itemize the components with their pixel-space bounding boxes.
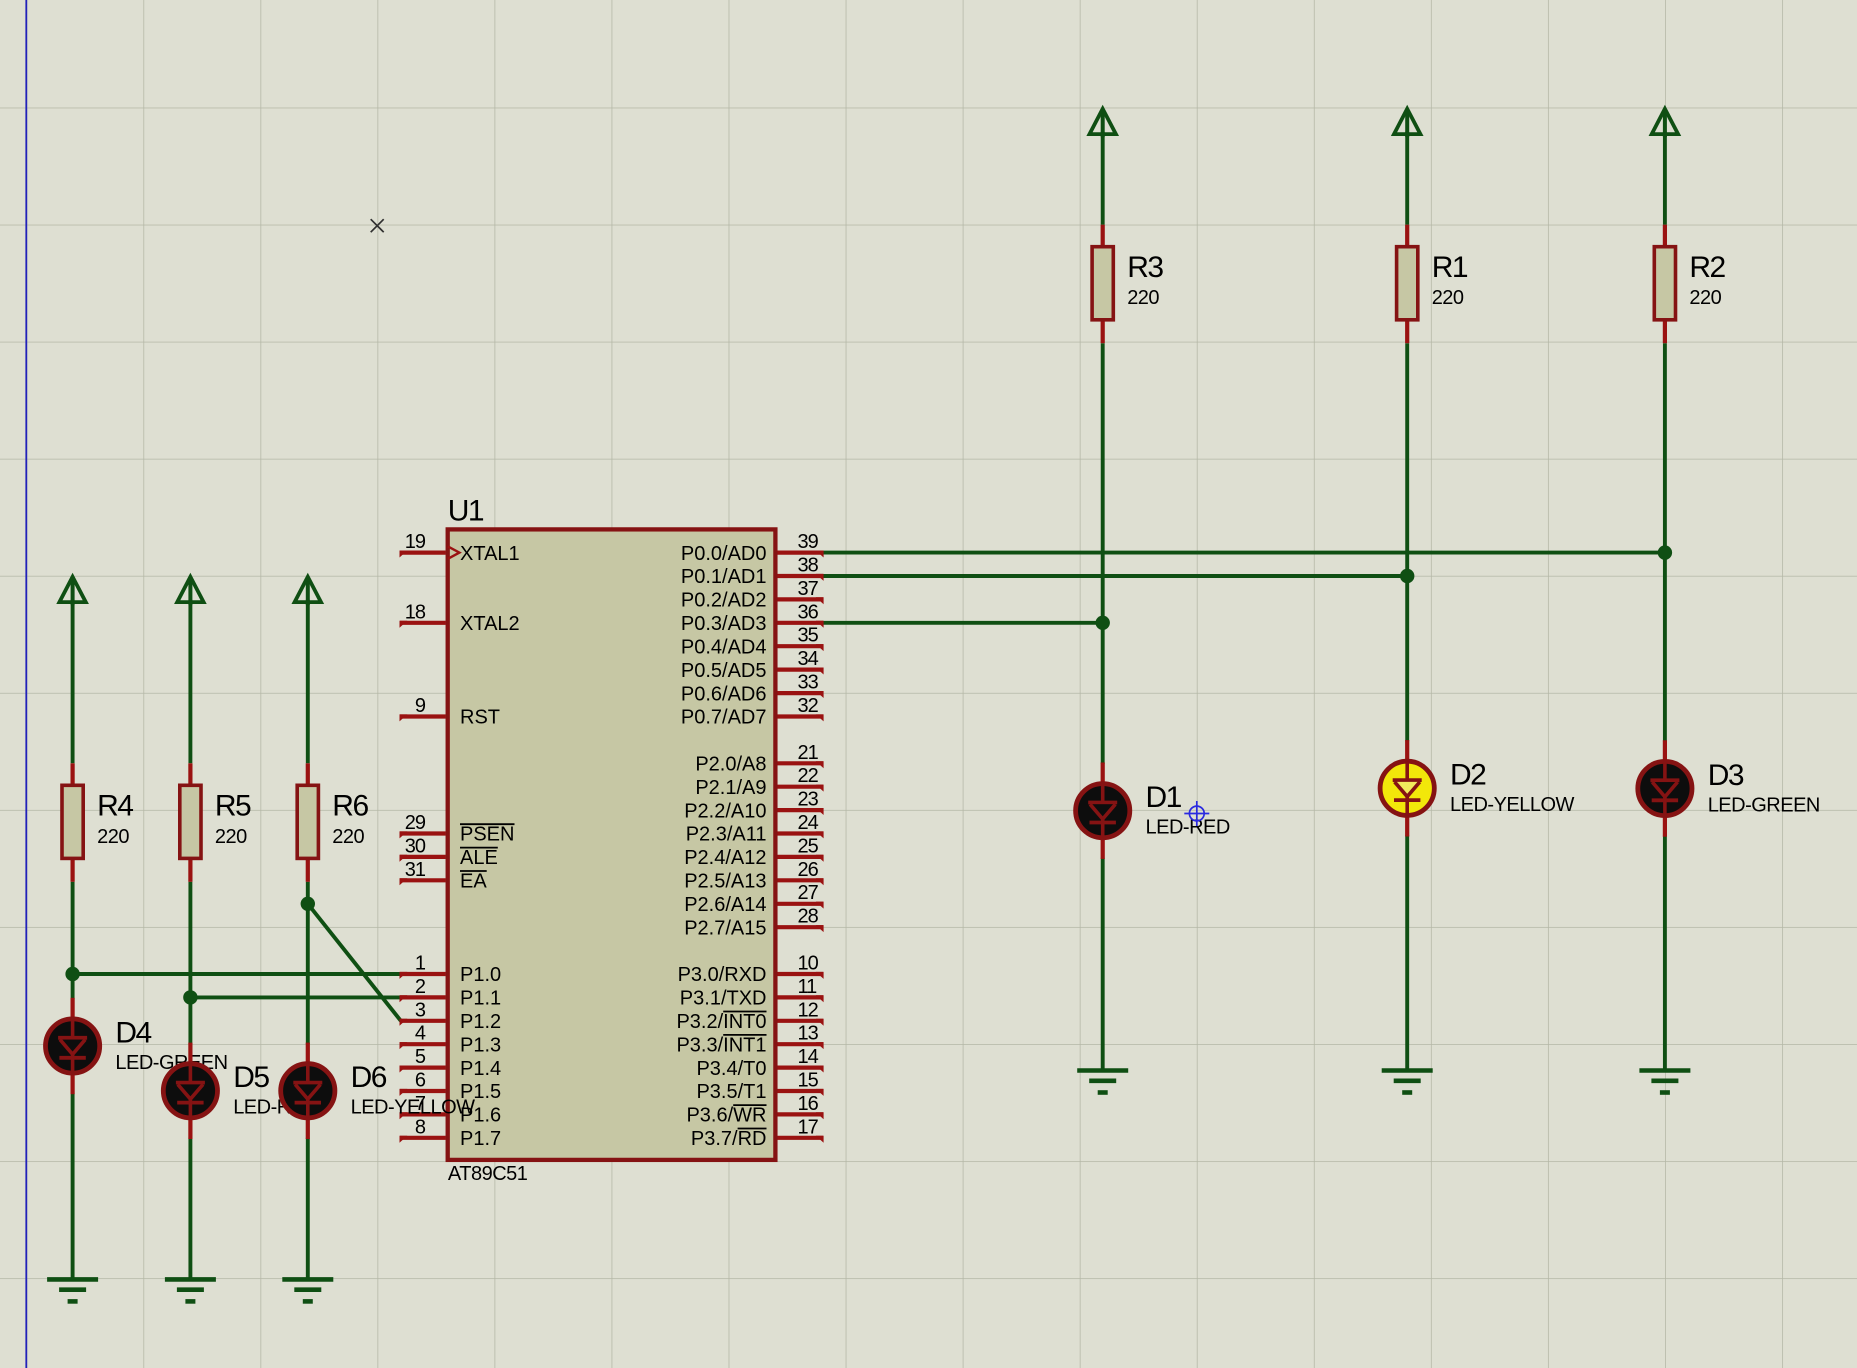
wire P0.0/AD0 pin 39 to D3 column — [822, 551, 1665, 555]
svg-text:220: 220 — [1432, 287, 1464, 309]
svg-text:PSEN: PSEN — [460, 824, 514, 846]
svg-text:34: 34 — [798, 648, 819, 670]
wire VCC to R1 (net V2 top) — [1405, 132, 1409, 225]
svg-text:LED-RED: LED-RED — [1146, 817, 1230, 839]
ground under D3 — [1639, 1071, 1690, 1093]
svg-text:14: 14 — [798, 1046, 819, 1068]
svg-text:P3.3/INT1: P3.3/INT1 — [676, 1034, 766, 1056]
pin 16 (P3.6/WR) stub — [778, 1112, 824, 1119]
pin 6 (P1.5) stub — [400, 1089, 446, 1096]
junction dot pin38 net — [1400, 569, 1414, 583]
LED D5 pin stubs — [188, 1043, 192, 1139]
pin name P3.3/INT1 — [676, 1034, 766, 1056]
pin 26 (P2.5/A13) stub — [778, 878, 824, 885]
power terminal for R6 — [295, 577, 321, 605]
svg-text:37: 37 — [798, 578, 819, 600]
svg-text:17: 17 — [798, 1116, 819, 1138]
pin name P2.7/A15 — [684, 917, 766, 939]
junction dot pin39 net — [1658, 545, 1672, 559]
svg-text:R2: R2 — [1689, 251, 1725, 284]
wire R4 to D4 — [71, 882, 75, 999]
pin 7 (P1.6) stub — [400, 1112, 446, 1119]
power terminal for R2 — [1652, 109, 1678, 137]
pin 10 (P3.0/RXD) stub — [778, 972, 824, 979]
pin name P2.3/A11 — [686, 824, 767, 846]
wire R5 to D5 — [188, 882, 192, 1044]
svg-text:LED-YELLOW: LED-YELLOW — [1450, 794, 1575, 816]
svg-text:35: 35 — [798, 625, 819, 647]
svg-text:38: 38 — [798, 555, 819, 577]
svg-text:220: 220 — [97, 826, 129, 848]
pin 35 (P0.4/AD4) stub — [778, 644, 824, 651]
svg-text:P3.2/INT0: P3.2/INT0 — [676, 1011, 766, 1033]
svg-text:EA: EA — [460, 871, 487, 893]
pin name P1.5 — [460, 1081, 501, 1103]
pin name P0.1/AD1 — [681, 566, 767, 588]
ground under D4 — [47, 1279, 98, 1301]
pin 30 (ALE) stub — [400, 855, 446, 862]
wire R6 to D6 — [306, 882, 310, 1044]
svg-text:31: 31 — [405, 859, 426, 881]
svg-text:32: 32 — [798, 695, 819, 717]
pin name P3.0/RXD — [678, 964, 767, 986]
svg-text:P0.0/AD0: P0.0/AD0 — [681, 543, 767, 565]
resistor R5 pin stubs — [188, 763, 192, 882]
wire P1.0 pin 1 to D4 column — [73, 972, 401, 976]
svg-text:P0.5/AD5: P0.5/AD5 — [681, 660, 767, 682]
svg-text:39: 39 — [798, 531, 819, 553]
resistor R3 pin stubs — [1101, 225, 1105, 344]
svg-text:P0.3/AD3: P0.3/AD3 — [681, 613, 767, 635]
svg-text:26: 26 — [798, 859, 819, 881]
svg-text:2: 2 — [415, 976, 426, 998]
pin 38 (P0.1/AD1) stub — [778, 574, 824, 581]
junction dot pin1 net — [65, 967, 79, 981]
svg-text:P2.6/A14: P2.6/A14 — [684, 894, 766, 916]
origin marker — [371, 219, 384, 232]
pin 5 (P1.4) stub — [400, 1066, 446, 1073]
svg-text:P1.1: P1.1 — [460, 988, 501, 1010]
LED D3 body — [1638, 761, 1692, 815]
pin name P1.4 — [460, 1058, 501, 1080]
wire VCC to R2 (net V3 top) — [1663, 132, 1667, 225]
LED D2 body — [1380, 761, 1434, 815]
LED D3 pin stubs — [1663, 740, 1667, 836]
pin name P2.5/A13 — [684, 871, 766, 893]
pin 27 (P2.6/A14) stub — [778, 902, 824, 909]
pin 14 (P3.4/T0) stub — [778, 1066, 824, 1073]
svg-text:24: 24 — [798, 812, 819, 834]
pin 3 (P1.2) stub — [400, 1019, 446, 1026]
pin name P0.3/AD3 — [681, 613, 767, 635]
svg-text:R6: R6 — [332, 790, 368, 823]
svg-text:LED-GREEN: LED-GREEN — [1708, 794, 1820, 816]
svg-text:XTAL2: XTAL2 — [460, 613, 520, 635]
pin name P2.6/A14 — [684, 894, 766, 916]
svg-text:9: 9 — [415, 695, 426, 717]
svg-text:R1: R1 — [1432, 251, 1468, 284]
pin name P0.5/AD5 — [681, 660, 767, 682]
svg-text:P3.6/WR: P3.6/WR — [686, 1105, 766, 1127]
svg-text:P0.7/AD7: P0.7/AD7 — [681, 707, 767, 729]
junction dot pin3 net — [301, 897, 315, 911]
LED D6 body — [281, 1064, 335, 1118]
wire D1 to ground — [1101, 858, 1105, 1071]
LED D4 body — [46, 1019, 100, 1073]
pin 32 (P0.7/AD7) stub — [778, 714, 824, 721]
resistor R4 body — [62, 785, 83, 858]
svg-text:LED-YELLOW: LED-YELLOW — [351, 1097, 476, 1119]
pin 4 (P1.3) stub — [400, 1042, 446, 1049]
pin name XTAL1 — [460, 543, 520, 565]
pin name P2.0/A8 — [695, 754, 766, 776]
svg-text:P3.7/RD: P3.7/RD — [691, 1128, 767, 1150]
pin name P3.6/WR — [686, 1105, 766, 1127]
pin 24 (P2.3/A11) stub — [778, 831, 824, 838]
wire VCC to R6 — [306, 600, 310, 764]
power terminal for R5 — [177, 577, 203, 605]
wire P0.1/AD1 pin 38 to D2 column — [822, 574, 1407, 578]
junction dot pin2 net — [183, 990, 197, 1004]
svg-text:220: 220 — [215, 826, 247, 848]
LED D6 pin stubs — [306, 1043, 310, 1139]
pin name P1.3 — [460, 1034, 501, 1056]
svg-text:13: 13 — [798, 1023, 819, 1045]
svg-text:4: 4 — [415, 1023, 426, 1045]
resistor R6 body — [297, 785, 318, 858]
svg-text:R3: R3 — [1127, 251, 1163, 284]
pin 12 (P3.2/INT0) stub — [778, 1019, 824, 1026]
svg-text:25: 25 — [798, 835, 819, 857]
pin name P1.6 — [460, 1105, 501, 1127]
junction dot pin36 net — [1096, 616, 1110, 630]
pin 15 (P3.5/T1) stub — [778, 1089, 824, 1096]
pin 36 (P0.3/AD3) stub — [778, 621, 824, 628]
svg-text:29: 29 — [405, 812, 426, 834]
svg-text:22: 22 — [798, 765, 819, 787]
pin name P3.5/T1 — [696, 1081, 766, 1103]
pin name P0.7/AD7 — [681, 707, 767, 729]
svg-text:P1.3: P1.3 — [460, 1034, 501, 1056]
pin name P0.2/AD2 — [681, 590, 767, 612]
wire VCC to R4 — [71, 600, 75, 764]
pin 17 (P3.7/RD) stub — [778, 1136, 824, 1143]
resistor R1 pin stubs — [1405, 225, 1409, 344]
svg-text:R5: R5 — [215, 790, 251, 823]
svg-text:RST: RST — [460, 707, 500, 729]
svg-text:P1.7: P1.7 — [460, 1128, 501, 1150]
svg-text:27: 27 — [798, 882, 819, 904]
IC U1 AT89C51 body — [448, 529, 776, 1160]
power terminal for R1 — [1394, 109, 1420, 137]
svg-text:P3.4/T0: P3.4/T0 — [696, 1058, 766, 1080]
svg-text:3: 3 — [415, 999, 426, 1021]
svg-text:U1: U1 — [448, 494, 484, 527]
wire VCC to R3 (net V1 top) — [1101, 132, 1105, 225]
svg-text:P3.5/T1: P3.5/T1 — [696, 1081, 766, 1103]
svg-text:18: 18 — [405, 601, 426, 623]
svg-text:P3.0/RXD: P3.0/RXD — [678, 964, 767, 986]
LED D5 body — [163, 1064, 217, 1118]
svg-text:P2.5/A13: P2.5/A13 — [684, 871, 766, 893]
resistor R5 body — [180, 785, 201, 858]
resistor R4 pin stubs — [70, 763, 74, 882]
svg-text:P3.1/TXD: P3.1/TXD — [680, 988, 767, 1010]
power terminal for R3 — [1090, 109, 1116, 137]
pin 9 (RST) stub — [400, 714, 446, 721]
resistor R3 body — [1092, 247, 1113, 320]
pin 18 (XTAL2) stub — [400, 621, 446, 628]
pin name P3.4/T0 — [696, 1058, 766, 1080]
pin 34 (P0.5/AD5) stub — [778, 668, 824, 675]
cursor crosshair — [1184, 801, 1209, 826]
svg-text:P2.4/A12: P2.4/A12 — [684, 847, 766, 869]
svg-text:AT89C51: AT89C51 — [448, 1163, 528, 1185]
svg-text:33: 33 — [798, 672, 819, 694]
svg-text:D4: D4 — [115, 1016, 151, 1049]
pin name P2.2/A10 — [684, 800, 766, 822]
LED D1 pin stubs — [1101, 763, 1105, 859]
svg-text:D6: D6 — [351, 1061, 387, 1094]
pin name P2.1/A9 — [695, 777, 766, 799]
pin 21 (P2.0/A8) stub — [778, 761, 824, 768]
svg-text:D5: D5 — [233, 1061, 269, 1094]
pin name P3.7/RD — [691, 1128, 767, 1150]
svg-text:11: 11 — [798, 976, 818, 998]
pin 19 (XTAL1) stub — [400, 551, 446, 558]
sheet border (left edge) — [25, 0, 27, 1368]
pin 31 (EA) stub — [400, 878, 446, 885]
pin 37 (P0.2/AD2) stub — [778, 597, 824, 604]
wire D2 to ground — [1405, 835, 1409, 1070]
resistor R2 pin stubs — [1663, 225, 1667, 344]
wire D6 to ground — [306, 1138, 310, 1280]
pin name ALE — [460, 847, 498, 869]
svg-text:5: 5 — [415, 1046, 426, 1068]
pin 39 (P0.0/AD0) stub — [778, 551, 824, 558]
wire R3 to D1 — [1101, 343, 1105, 764]
svg-text:15: 15 — [798, 1070, 819, 1092]
svg-text:P2.3/A11: P2.3/A11 — [686, 824, 767, 846]
svg-text:P0.1/AD1: P0.1/AD1 — [681, 566, 767, 588]
svg-text:P0.4/AD4: P0.4/AD4 — [681, 636, 767, 658]
svg-text:220: 220 — [1689, 287, 1721, 309]
svg-text:XTAL1: XTAL1 — [460, 543, 520, 565]
pin name P3.1/TXD — [680, 988, 767, 1010]
svg-text:19: 19 — [405, 531, 426, 553]
pin name XTAL2 — [460, 613, 520, 635]
wire VCC to R5 — [188, 600, 192, 764]
pin 22 (P2.1/A9) stub — [778, 785, 824, 792]
svg-text:P2.1/A9: P2.1/A9 — [695, 777, 766, 799]
svg-text:ALE: ALE — [460, 847, 498, 869]
pin name P0.0/AD0 — [681, 543, 767, 565]
pin name RST — [460, 707, 500, 729]
pin 28 (P2.7/A15) stub — [778, 925, 824, 932]
wire D5 to ground — [188, 1138, 192, 1280]
pin 1 (P1.0) stub — [400, 972, 446, 979]
wire D3 to ground — [1663, 836, 1667, 1071]
LED D4 pin stubs — [70, 998, 74, 1094]
wire P1.1 pin 2 to D5 column — [190, 995, 400, 999]
pin name EA — [460, 871, 487, 893]
pin 33 (P0.6/AD6) stub — [778, 691, 824, 698]
wire D4 to ground — [71, 1093, 75, 1279]
svg-text:P1.4: P1.4 — [460, 1058, 501, 1080]
svg-text:21: 21 — [798, 742, 819, 764]
pin name P1.7 — [460, 1128, 501, 1150]
svg-text:7: 7 — [415, 1093, 426, 1115]
svg-text:P1.0: P1.0 — [460, 964, 501, 986]
XTAL1 clock input marker — [448, 546, 460, 558]
resistor R6 pin stubs — [306, 763, 310, 882]
pin name P1.1 — [460, 988, 501, 1010]
pin 13 (P3.3/INT1) stub — [778, 1042, 824, 1049]
svg-text:P1.2: P1.2 — [460, 1011, 501, 1033]
svg-text:D3: D3 — [1708, 759, 1744, 792]
pin name P3.2/INT0 — [676, 1011, 766, 1033]
pin name P1.2 — [460, 1011, 501, 1033]
svg-text:30: 30 — [405, 835, 426, 857]
svg-text:16: 16 — [798, 1093, 819, 1115]
svg-text:36: 36 — [798, 601, 819, 623]
svg-text:220: 220 — [1127, 287, 1159, 309]
pin 29 (PSEN) stub — [400, 831, 446, 838]
svg-text:P2.7/A15: P2.7/A15 — [684, 917, 766, 939]
svg-text:1: 1 — [415, 953, 426, 975]
svg-text:P0.6/AD6: P0.6/AD6 — [681, 683, 767, 705]
ground under D5 — [165, 1279, 216, 1301]
wire P0.3/AD3 pin 36 to D1 column — [822, 621, 1102, 625]
svg-text:D1: D1 — [1146, 781, 1182, 814]
svg-text:8: 8 — [415, 1116, 426, 1138]
svg-text:D2: D2 — [1450, 759, 1486, 792]
wire R1 to D2 — [1405, 343, 1409, 741]
pin 11 (P3.1/TXD) stub — [778, 995, 824, 1002]
pin name P0.4/AD4 — [681, 636, 767, 658]
pin 2 (P1.1) stub — [400, 995, 446, 1002]
svg-text:R4: R4 — [97, 790, 133, 823]
pin name P2.4/A12 — [684, 847, 766, 869]
pin 8 (P1.7) stub — [400, 1136, 446, 1143]
wire R2 to D3 — [1663, 343, 1667, 741]
ground under D6 — [282, 1279, 333, 1301]
resistor R1 body — [1397, 247, 1418, 320]
power terminal for R4 — [59, 577, 85, 605]
ground under D1 — [1077, 1071, 1128, 1093]
resistor R2 body — [1654, 247, 1675, 320]
LED D2 pin stubs — [1405, 740, 1409, 836]
pin 23 (P2.2/A10) stub — [778, 808, 824, 815]
pin name P0.6/AD6 — [681, 683, 767, 705]
svg-text:12: 12 — [798, 999, 819, 1021]
svg-text:P2.2/A10: P2.2/A10 — [684, 800, 766, 822]
svg-text:28: 28 — [798, 906, 819, 928]
wire P1.2 pin 3 diagonal to D6 column — [308, 904, 401, 1021]
svg-text:23: 23 — [798, 789, 819, 811]
svg-text:6: 6 — [415, 1070, 426, 1092]
pin name PSEN — [460, 824, 515, 846]
svg-text:P0.2/AD2: P0.2/AD2 — [681, 590, 767, 612]
svg-text:P2.0/A8: P2.0/A8 — [695, 754, 766, 776]
pin 25 (P2.4/A12) stub — [778, 855, 824, 862]
svg-text:220: 220 — [332, 826, 364, 848]
pin name P1.0 — [460, 964, 501, 986]
svg-text:10: 10 — [798, 953, 819, 975]
LED D1 body — [1076, 784, 1130, 838]
ground under D2 — [1382, 1071, 1433, 1093]
